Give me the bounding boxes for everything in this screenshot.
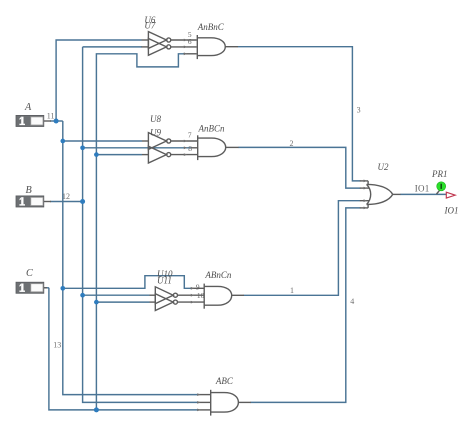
svg-text:U7: U7: [144, 20, 155, 30]
svg-text:B: B: [26, 185, 32, 196]
svg-text:C: C: [26, 268, 33, 279]
svg-text:9: 9: [196, 283, 200, 292]
svg-text:10: 10: [197, 291, 205, 300]
svg-text:IO1: IO1: [415, 183, 430, 193]
svg-text:U8: U8: [150, 114, 161, 124]
svg-text:A: A: [24, 102, 32, 113]
svg-text:1: 1: [290, 286, 294, 295]
svg-text:IO1: IO1: [444, 206, 459, 216]
svg-text:AnBnC: AnBnC: [197, 22, 225, 32]
svg-text:ABC: ABC: [215, 376, 234, 386]
svg-text:4: 4: [350, 297, 354, 306]
svg-text:2: 2: [290, 139, 294, 148]
svg-text:13: 13: [53, 341, 61, 350]
svg-text:AnBCn: AnBCn: [198, 123, 225, 133]
svg-text:12: 12: [62, 192, 70, 201]
svg-text:U11: U11: [157, 276, 172, 286]
svg-text:6: 6: [188, 37, 192, 46]
svg-text:3: 3: [357, 105, 361, 114]
svg-text:U2: U2: [378, 162, 389, 172]
svg-text:ABnCn: ABnCn: [204, 270, 231, 280]
svg-text:7: 7: [188, 131, 192, 140]
svg-text:PR1: PR1: [431, 169, 448, 179]
svg-text:8: 8: [188, 144, 192, 153]
svg-text:11: 11: [47, 111, 55, 120]
svg-text:U9: U9: [150, 127, 161, 137]
